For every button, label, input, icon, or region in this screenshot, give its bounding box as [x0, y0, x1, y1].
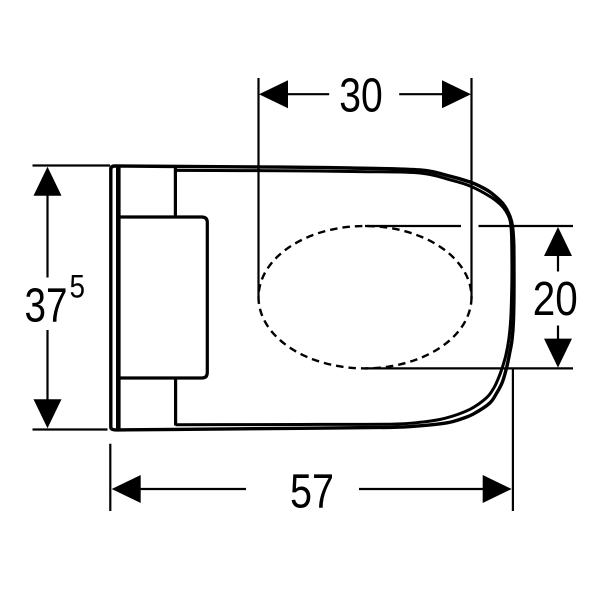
svg-text:57: 57	[290, 465, 334, 519]
svg-text:30: 30	[339, 69, 383, 123]
svg-text:5: 5	[70, 268, 86, 305]
svg-text:37: 37	[25, 279, 68, 333]
svg-text:20: 20	[533, 272, 578, 326]
